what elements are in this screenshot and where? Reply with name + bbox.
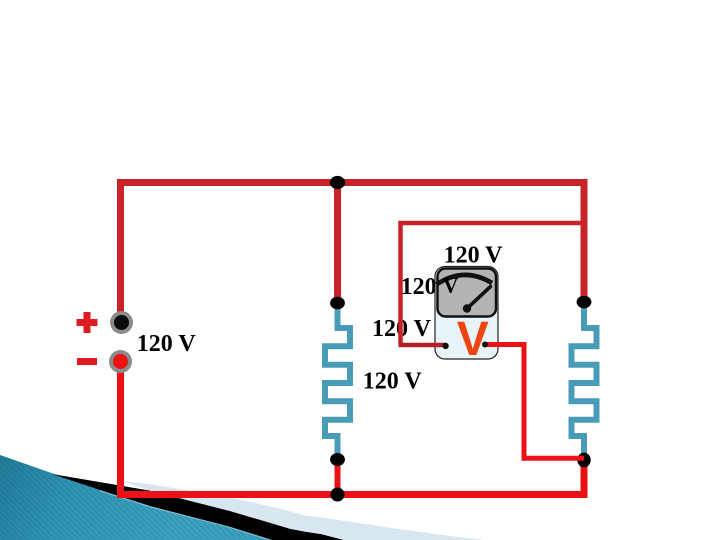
wire: middle branch vertical from top node to resistor R1 — [334, 183, 341, 304]
svg-text:V: V — [457, 313, 489, 366]
wire: voltmeter left lead (up and across inner rectangle, dark red) — [401, 223, 585, 345]
voltmeter V1 scale arc — [437, 275, 493, 285]
voltmeter V1 needle — [467, 287, 491, 309]
voltmeter V1 body — [435, 267, 498, 360]
svg-text:120 V: 120 V — [363, 368, 423, 394]
node: top junction of middle branch — [330, 176, 345, 189]
resistor R2 (right branch) — [572, 303, 597, 460]
voltmeter V1 left terminal — [442, 343, 448, 349]
battery positive terminal — [110, 311, 133, 334]
voltmeter V1 display panel — [438, 269, 497, 317]
svg-text:120 V: 120 V — [444, 242, 504, 268]
battery negative terminal — [109, 350, 132, 373]
battery minus sign — [77, 358, 97, 365]
node: bottom wire junction of middle branch — [331, 488, 345, 502]
node: top of resistor R1 — [330, 297, 345, 310]
node: bottom of resistor R2 — [577, 453, 590, 468]
wire: middle resistor bottom stub — [335, 460, 341, 495]
node: top of resistor R2 — [577, 296, 592, 309]
node: bottom of resistor R1 — [330, 453, 345, 466]
wire: top horizontal, left vertical and right vertical (main loop, dark red) — [121, 183, 585, 327]
wire: voltmeter right lead to bottom of resistor R2 — [485, 345, 584, 459]
svg-text:V: V — [443, 272, 459, 297]
wire: bottom loop (left lower vertical, bottom horizontal, right lower vertical, bright red) — [121, 358, 585, 495]
resistor R1 (middle branch) — [325, 303, 350, 460]
battery plus sign — [77, 312, 98, 333]
svg-text:120 V: 120 V — [137, 331, 197, 357]
voltmeter V1 right terminal — [482, 342, 488, 348]
